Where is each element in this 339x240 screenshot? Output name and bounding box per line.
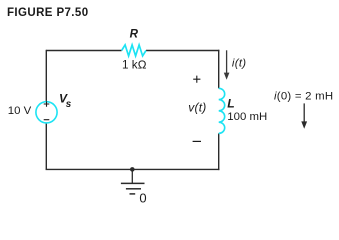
wire left upper (45, 50, 47, 102)
svg-text:100 mH: 100 mH (227, 111, 267, 123)
wire top-left segment (46, 50, 121, 52)
svg-text:FIGURE P7.50: FIGURE P7.50 (7, 7, 89, 19)
ground bar 2 (126, 188, 141, 190)
wire right lower (218, 133, 220, 170)
node junction dot (130, 167, 135, 172)
svg-text:10 V: 10 V (8, 105, 32, 117)
ground bar 1 (121, 182, 145, 184)
voltage source plus sign (44, 101, 50, 107)
wire right upper (218, 50, 220, 89)
svg-text:i(0) = 2 mH: i(0) = 2 mH (274, 90, 333, 102)
wire top-right segment (146, 50, 219, 52)
inductor plus polarity (193, 76, 200, 83)
voltage source V1 circle (36, 102, 57, 123)
svg-text:0: 0 (139, 190, 146, 205)
inductor L1 coils (219, 88, 225, 133)
wire bottom (46, 168, 220, 170)
svg-text:i(t): i(t) (232, 58, 246, 70)
svg-text:v(t): v(t) (188, 101, 206, 115)
inductor minus polarity (193, 140, 201, 142)
svg-text:R: R (130, 28, 139, 41)
svg-text:1 kΩ: 1 kΩ (122, 59, 147, 72)
voltage source minus sign (44, 119, 50, 121)
current arrow i(t) (226, 50, 228, 74)
resistor R1 zigzag (122, 45, 146, 56)
svg-text:L: L (227, 96, 234, 110)
ground stub wire (131, 169, 133, 183)
ground bar 3 (130, 193, 136, 195)
initial condition arrow (303, 103, 305, 122)
svg-text:s: s (66, 99, 72, 110)
wire left lower (45, 123, 47, 169)
